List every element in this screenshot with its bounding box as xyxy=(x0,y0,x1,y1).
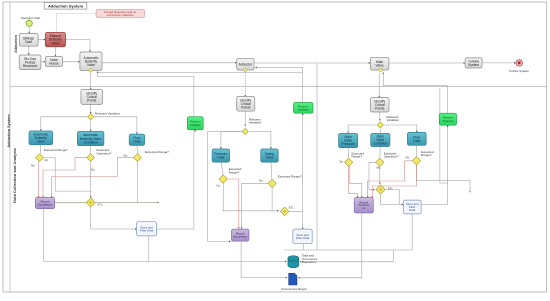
svg-text:Adductor: Adductor xyxy=(239,62,253,66)
svg-text:Expected Range?: Expected Range? xyxy=(278,174,302,178)
svg-text:Valve: Valve xyxy=(51,41,59,45)
svg-text:Repository: Repository xyxy=(302,260,317,264)
svg-text:Condition: Condition xyxy=(84,140,98,144)
svg-text:Occurrence: Occurrence xyxy=(233,235,247,239)
svg-text:Variables: Variables xyxy=(249,121,262,125)
svg-text:No: No xyxy=(123,154,127,158)
svg-text:ETL: ETL xyxy=(289,205,294,209)
svg-text:No: No xyxy=(339,160,343,164)
svg-text:No.: No. xyxy=(91,167,96,171)
svg-text:Analysis: Analysis xyxy=(190,123,201,127)
svg-text:No: No xyxy=(31,164,35,168)
svg-text:System: System xyxy=(468,63,479,67)
svg-text:Expected Range?: Expected Range? xyxy=(145,150,169,154)
svg-text:Valve: Valve xyxy=(376,64,384,68)
svg-text:Adduction System: Adduction System xyxy=(7,114,11,148)
svg-text:No: No xyxy=(405,156,409,160)
svg-text:Dam: Dam xyxy=(25,40,32,44)
svg-text:occurrence collection: occurrence collection xyxy=(107,13,135,17)
svg-text:ETL: ETL xyxy=(98,202,103,206)
svg-text:Occurrence: Occurrence xyxy=(38,202,52,206)
svg-text:No.: No. xyxy=(217,183,221,187)
svg-text:Condition: Condition xyxy=(373,142,387,146)
svg-text:Range?: Range? xyxy=(352,155,363,159)
svg-text:Range?: Range? xyxy=(229,170,240,174)
svg-text:Analysis: Analysis xyxy=(298,107,309,111)
svg-text:Expected Range?: Expected Range? xyxy=(44,148,68,152)
svg-text:Operation Start: Operation Start xyxy=(21,16,41,20)
svg-text:Data Collection and Analysis: Data Collection and Analysis xyxy=(12,147,17,203)
svg-text:No.: No. xyxy=(45,158,49,162)
svg-text:Turbine System: Turbine System xyxy=(509,69,530,73)
svg-text:Analysis: Analysis xyxy=(443,119,454,123)
svg-text:Filter Data: Filter Data xyxy=(140,228,154,232)
svg-text:No.: No. xyxy=(376,165,381,169)
svg-text:ETL: ETL xyxy=(388,187,393,191)
svg-text:Valve: Valve xyxy=(87,63,95,67)
svg-text:Points: Points xyxy=(241,106,251,110)
svg-text:Operation?: Operation? xyxy=(384,155,399,159)
svg-text:Data: Data xyxy=(266,156,273,160)
svg-text:Filter Data: Filter Data xyxy=(296,236,310,240)
svg-text:Relevant Variables: Relevant Variables xyxy=(95,111,120,115)
svg-text:Variables: Variables xyxy=(387,118,400,122)
svg-text:Data: Data xyxy=(409,208,415,212)
svg-text:Points: Points xyxy=(375,106,385,110)
svg-text:Data: Data xyxy=(133,140,140,144)
svg-text:No.: No. xyxy=(259,178,263,182)
svg-text:Pressure: Pressure xyxy=(341,142,355,146)
svg-text:Points: Points xyxy=(87,99,97,103)
svg-text:Adduction System: Adduction System xyxy=(48,3,84,8)
svg-text:ce: ce xyxy=(362,207,365,210)
svg-text:Adduction: Adduction xyxy=(14,35,18,53)
svg-text:Data: Data xyxy=(413,139,420,143)
svg-text:Operation?: Operation? xyxy=(97,151,112,155)
svg-text:Data: Data xyxy=(217,156,224,160)
svg-text:Reservoir: Reservoir xyxy=(23,64,38,68)
svg-text:Occurrences Report: Occurrences Report xyxy=(281,287,307,291)
svg-text:House: House xyxy=(49,62,59,66)
svg-text:Valve: Valve xyxy=(37,140,45,144)
svg-text:Range?: Range? xyxy=(421,153,432,157)
